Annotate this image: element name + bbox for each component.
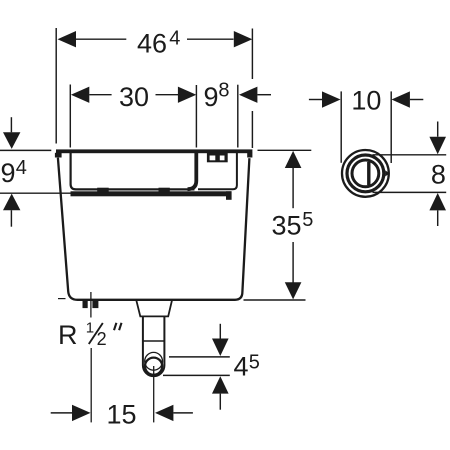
inlet centerline lower / 15 left extension	[90, 348, 92, 422]
dim 10 left extension	[340, 91, 342, 162]
dim 8 top arrow	[429, 137, 446, 155]
small view inner ring	[352, 160, 379, 187]
svg-text:10: 10	[351, 85, 381, 115]
dim 35-5 line lower	[292, 242, 294, 283]
small view outer ring	[342, 150, 389, 197]
dim 10 right tail	[410, 99, 423, 101]
outlet seal circle (thick)	[145, 358, 162, 375]
dim 30 arrow left	[71, 87, 89, 103]
dim 10 right extension	[390, 91, 392, 163]
dim 30 tail left	[89, 94, 111, 96]
svg-text:35: 35	[272, 211, 302, 241]
flush button box	[207, 153, 228, 163]
svg-text:30: 30	[119, 82, 149, 112]
dim 9-4 top tail	[10, 117, 12, 132]
dim 8 bottom tail	[437, 210, 439, 226]
dim 46-4 right extension lower	[251, 111, 253, 148]
dim 4-5 bottom tail	[219, 394, 221, 410]
dim 4-5 top line	[169, 356, 230, 358]
dim 10 left tail	[309, 99, 322, 101]
dim 46-4 arrow right	[234, 31, 253, 47]
shelf tab left	[97, 188, 109, 193]
shelf tab right	[159, 188, 170, 193]
lid left end block	[55, 153, 62, 158]
dim 46-4 right extension upper	[251, 29, 253, 80]
dim 46-4 line left	[76, 38, 126, 40]
service opening left wall and inner bottom line	[71, 153, 195, 189]
dim 15 left tail	[51, 412, 72, 414]
cistern lid	[56, 149, 252, 153]
dim 8 bottom arrow	[429, 193, 446, 210]
dim 9-4 bottom arrow	[3, 194, 20, 211]
dim 15 right tail	[173, 412, 193, 414]
svg-text:9: 9	[204, 82, 219, 112]
dim 9-4 bottom tail	[10, 210, 12, 227]
dim 35-5 bottom arrow	[285, 282, 302, 299]
bottom-left stub line	[58, 298, 66, 300]
dim 4-5 bottom arrow	[212, 376, 229, 393]
small view slot bar	[367, 162, 370, 185]
outlet pipe U body	[143, 316, 165, 376]
svg-text:9: 9	[1, 158, 16, 188]
pipe joint line	[143, 340, 165, 342]
dim 46-4 line right	[187, 38, 234, 40]
inlet centerline upper	[90, 292, 92, 318]
svg-text:5: 5	[249, 352, 260, 374]
svg-text:46: 46	[137, 28, 167, 58]
svg-text:4: 4	[234, 351, 249, 381]
dim 46-4 left extension	[55, 28, 57, 144]
svg-text:R: R	[58, 320, 78, 350]
shelf bar right end step	[226, 191, 232, 200]
dim 8 top tail	[437, 122, 439, 137]
small view index notch	[385, 170, 389, 176]
dim 35-5 bottom extension	[244, 299, 306, 301]
dim 15 right arrow	[155, 405, 173, 421]
small view middle ring	[347, 155, 384, 192]
dim 9-8 outside arrow	[239, 87, 257, 103]
inner shelf bar	[71, 191, 232, 196]
dim 35-5 top arrow	[285, 151, 302, 168]
dim 35-5 top extension	[258, 149, 312, 151]
dim 9-8 tail	[257, 94, 271, 96]
dim 9-4 top arrow	[3, 132, 20, 149]
cistern outer shell	[58, 158, 250, 300]
inlet tab left	[83, 300, 88, 309]
outlet centerline / 15 right extension	[153, 366, 155, 422]
svg-text:2: 2	[97, 329, 107, 349]
dim 10 right arrow	[392, 91, 410, 107]
dim 9-8 right extension	[237, 85, 239, 148]
dim 30 mid extension	[195, 85, 197, 148]
dim 15 left arrow	[72, 405, 91, 421]
dim 30 left extension	[69, 85, 71, 148]
dim 46-4 arrow left	[58, 31, 77, 47]
outlet ball circle (thin)	[145, 352, 163, 370]
service opening right wall (thick)	[188, 153, 197, 189]
dim 10 left arrow	[322, 91, 341, 107]
dim 35-5 line upper	[292, 168, 294, 208]
dim 30 arrow right	[178, 87, 196, 103]
dim 8 top line	[373, 154, 447, 156]
dim 8 bottom line	[373, 191, 447, 193]
svg-text:5: 5	[302, 209, 313, 231]
svg-text:8: 8	[218, 80, 229, 102]
svg-text:1: 1	[86, 320, 94, 337]
dim 4-5 top tail	[219, 324, 221, 339]
dim 4-5 top arrow	[212, 339, 229, 357]
dim 9-4 bottom line	[0, 192, 88, 194]
inlet tab right	[92, 300, 98, 309]
svg-text:8: 8	[431, 160, 446, 190]
button hole 2	[220, 156, 225, 161]
valve compartment outline	[198, 153, 237, 189]
dim 9-4 top line	[0, 149, 51, 151]
lid right end block	[247, 153, 252, 158]
outlet collar	[136, 300, 172, 317]
svg-text:4: 4	[169, 28, 180, 50]
dim 30 line right	[156, 94, 179, 96]
dim 4-5 bottom line	[163, 374, 230, 376]
button hole 1	[210, 156, 216, 161]
svg-text:15: 15	[107, 399, 137, 429]
svg-text:4: 4	[16, 157, 27, 179]
